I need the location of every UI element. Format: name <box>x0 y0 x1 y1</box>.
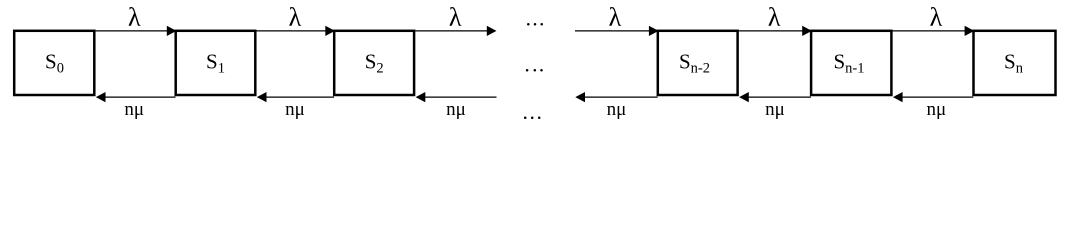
arrow lambda S0 to S1 <box>95 26 177 36</box>
svg-text:nμ: nμ <box>765 99 785 120</box>
arrow lambda Sn-2 to Sn-1 <box>738 26 812 36</box>
svg-text:nμ: nμ <box>124 99 144 120</box>
svg-text:λ: λ <box>768 2 781 31</box>
svg-text:λ: λ <box>609 2 622 31</box>
arrow nmu Sn-1 to Sn-2 <box>739 92 811 102</box>
svg-text:nμ: nμ <box>607 99 627 120</box>
state box S2 <box>334 31 414 95</box>
svg-text:λ: λ <box>128 2 141 31</box>
ellipsis dots top row <box>527 23 543 26</box>
svg-text:λ: λ <box>289 2 302 31</box>
arrow nmu S1 to S0 <box>96 92 176 102</box>
svg-text:nμ: nμ <box>926 99 946 120</box>
svg-text:λ: λ <box>449 2 462 31</box>
svg-text:nμ: nμ <box>285 99 305 120</box>
state box Sn-2 <box>658 31 738 95</box>
arrow lambda S1 to S2 <box>256 26 336 36</box>
arrow nmu Sn to Sn-1 <box>893 92 973 102</box>
svg-text:λ: λ <box>930 2 943 31</box>
state box Sn <box>974 31 1056 95</box>
arrow lambda S2 to dots <box>414 26 496 36</box>
state box S0 <box>14 31 94 95</box>
ellipsis dots bottom row <box>524 117 541 120</box>
svg-text:nμ: nμ <box>446 99 466 120</box>
arrow nmu S2 to S1 <box>257 92 334 102</box>
state box Sn-1 <box>811 31 891 95</box>
arrow lambda Sn-1 to Sn <box>892 26 975 36</box>
arrow lambda dots to Sn-2 <box>575 26 659 36</box>
ellipsis dots middle row <box>526 69 543 72</box>
arrow nmu dots to S2 <box>416 92 497 102</box>
arrow nmu Sn-2 to dots <box>575 92 657 102</box>
state box S1 <box>176 31 256 95</box>
